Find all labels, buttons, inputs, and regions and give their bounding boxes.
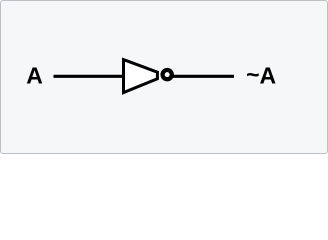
wire input A to inverter [54, 75, 124, 78]
svg-text:~: ~ [246, 62, 259, 88]
wire inverter to output ~A [173, 75, 234, 78]
NOT gate (inverter) schematic card [0, 0, 328, 154]
inverter U1 bubble [163, 70, 172, 79]
svg-text:A: A [26, 63, 43, 89]
inverter U1 triangle [124, 60, 158, 93]
svg-text:A: A [260, 63, 277, 89]
